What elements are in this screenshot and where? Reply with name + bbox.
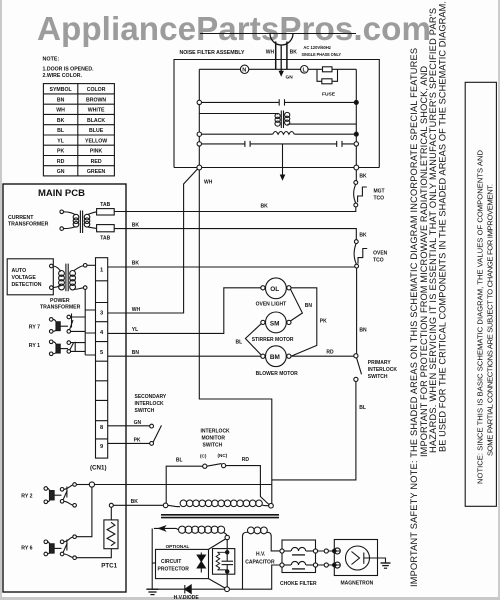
node HV primary right [269, 503, 274, 508]
HV transformer secondary winding [154, 526, 227, 535]
svg-text:GN: GN [286, 75, 294, 81]
power transformer label [40, 298, 81, 311]
connector pin numbers [100, 268, 104, 451]
svg-text:RY 6: RY 6 [21, 546, 32, 552]
label HV CAPACITOR [245, 552, 275, 566]
svg-text:CIRCUIT: CIRCUIT [161, 559, 181, 565]
note text [43, 57, 95, 80]
node junction RY2 top [89, 482, 94, 487]
svg-text:WH: WH [132, 307, 141, 313]
auto voltage detection block [7, 259, 53, 295]
wire OL to SM bend BN [290, 289, 302, 321]
ground left [146, 589, 158, 594]
svg-text:TAB: TAB [100, 202, 110, 208]
wire TVS top link [209, 539, 226, 549]
wire magnetron anode to ground [364, 558, 386, 563]
svg-text:INTERLOCK: INTERLOCK [135, 401, 165, 407]
ground stub below filter caps [280, 144, 286, 181]
svg-text:STIRRER MOTOR: STIRRER MOTOR [252, 337, 294, 343]
terminal row3 left [197, 132, 201, 136]
wire BL interlock down [272, 382, 356, 480]
wire bottom HV rail [152, 565, 280, 589]
terminal L [301, 66, 309, 74]
svg-text:MAGNETRON: MAGNETRON [341, 581, 374, 587]
wire choke to magnetron bottom [318, 564, 335, 566]
switch primary interlock [354, 354, 362, 382]
choke filter terminals left [280, 549, 284, 553]
HV transformer core [161, 515, 279, 518]
svg-text:AppliancePartsPros.com: AppliancePartsPros.com [37, 11, 431, 48]
label OVEN TCO [373, 251, 388, 264]
svg-text:RD: RD [326, 350, 334, 356]
wire RY2 wire1 out [95, 484, 272, 486]
svg-text:PTC1: PTC1 [101, 563, 117, 570]
wire noise filter right bus [355, 69, 357, 165]
svg-text:NOTE:: NOTE: [43, 57, 60, 63]
svg-text:RED: RED [91, 159, 102, 165]
svg-text:H.V.DIODE: H.V.DIODE [174, 595, 200, 600]
ground magnetron [381, 563, 391, 568]
thermal cutout OVEN TCO [354, 240, 367, 268]
wire junction down to RY6 [76, 487, 92, 537]
resistor PTC1 [104, 520, 118, 549]
svg-text:WH: WH [266, 50, 275, 56]
svg-text:NOTICE: SINCE THIS IS BASIC SC: NOTICE: SINCE THIS IS BASIC SCHEMATIC DI… [476, 149, 485, 484]
important safety note vertical text [409, 1, 448, 587]
TAB terminal upper [97, 209, 115, 215]
svg-text:SINGLE PHASE ONLY: SINGLE PHASE ONLY [302, 52, 342, 58]
svg-text:2.WIRE COLOR.: 2.WIRE COLOR. [43, 73, 83, 79]
svg-text:INTERLOCK: INTERLOCK [368, 367, 398, 373]
svg-text:BK: BK [261, 204, 269, 210]
node junction BL BK [163, 503, 168, 508]
wire pin4 YL to oven light [108, 288, 261, 334]
svg-text:MONITOR: MONITOR [202, 436, 226, 442]
svg-text:HAZARDS. WHEN SERVICING IT IS: HAZARDS. WHEN SERVICING IT IS ESSENTIAL … [428, 8, 438, 453]
wire pin1 to power transformer [87, 264, 96, 266]
svg-text:OPTIONAL: OPTIONAL [166, 544, 190, 549]
svg-text:WHITE: WHITE [88, 108, 105, 114]
svg-text:BL: BL [236, 340, 243, 346]
wire pin1 BK to OVEN TCO bottom [108, 266, 355, 268]
power plug [270, 34, 293, 72]
svg-text:RD: RD [57, 159, 65, 165]
svg-text:NOISE FILTER ASSEMBLY: NOISE FILTER ASSEMBLY [180, 50, 245, 56]
chassis top line [200, 33, 356, 35]
svg-text:PROTECTOR: PROTECTOR [158, 567, 190, 573]
svg-text:OL: OL [270, 286, 279, 293]
svg-text:3: 3 [100, 311, 104, 317]
wire RY2 top to junction [76, 484, 90, 486]
svg-text:9: 9 [100, 444, 104, 450]
svg-text:BN: BN [57, 97, 65, 103]
svg-text:BM: BM [270, 354, 280, 361]
terminal WH out [197, 165, 202, 170]
wire power transformer bus [85, 289, 95, 355]
svg-text:(CN1): (CN1) [90, 465, 107, 472]
svg-text:GN: GN [57, 169, 65, 175]
wire BK RY2 wire2 out [113, 504, 163, 506]
ground wire GN arrow [279, 71, 294, 81]
notice text [476, 149, 495, 484]
terminal BK out [354, 165, 359, 170]
wire pin9 PK [108, 442, 150, 444]
svg-text:PK: PK [134, 438, 141, 444]
svg-text:SWITCH: SWITCH [135, 408, 155, 414]
svg-text:SWITCH: SWITCH [203, 443, 223, 449]
connector circle bottom [324, 563, 328, 567]
svg-text:IMPORTANT SAFETY NOTE: THE SHA: IMPORTANT SAFETY NOTE: THE SHADED AREAS … [409, 48, 419, 587]
wire circuit protector to ground bus [152, 562, 155, 564]
noise filter assembly box [174, 60, 379, 168]
svg-text:BLUE: BLUE [89, 128, 104, 134]
svg-text:TRANSFORMER: TRANSFORMER [40, 305, 81, 311]
svg-text:TCO: TCO [374, 196, 385, 202]
magnetron filament terminals [333, 549, 337, 553]
svg-text:PK: PK [320, 319, 327, 325]
magnetron tube [346, 546, 370, 570]
HV capacitor box [213, 540, 235, 587]
wire color table [43, 84, 114, 176]
svg-text:CAPACITOR: CAPACITOR [245, 560, 275, 566]
svg-text:BK: BK [131, 499, 139, 505]
noise filter bottom edge [174, 167, 379, 169]
svg-text:BN: BN [305, 303, 313, 309]
connector circle top [324, 549, 328, 553]
svg-text:RD: RD [242, 457, 250, 463]
switch interlock monitor [200, 453, 228, 468]
svg-text:SM: SM [270, 320, 280, 327]
svg-text:FUSE: FUSE [322, 92, 336, 98]
wire pin5 BN to blower motor [108, 355, 261, 357]
label INTERLOCK MONITOR SWITCH [201, 429, 231, 449]
svg-text:RY 7: RY 7 [29, 325, 40, 331]
terminal row1 left [197, 100, 201, 104]
HV transformer primary winding [168, 500, 269, 507]
wire choke to magnetron top [318, 550, 335, 552]
power transformer [50, 264, 87, 292]
svg-text:BK: BK [132, 223, 140, 229]
TAB terminal lower [97, 225, 115, 232]
choke filter terminals right [313, 549, 317, 553]
capacitor X1 row1 [202, 99, 355, 105]
wire pin8 GN [108, 425, 150, 427]
svg-text:CHOKE FILTER: CHOKE FILTER [280, 581, 317, 587]
notice box [465, 82, 496, 506]
svg-text:8: 8 [100, 425, 104, 431]
wire TAB2 to OVEN TCO [114, 229, 356, 240]
terminal row4 right [354, 142, 358, 146]
svg-text:BK: BK [57, 118, 65, 124]
svg-text:BE USED FOR THE CRITICAL COMPO: BE USED FOR THE CRITICAL COMPONENTS IN T… [438, 1, 448, 452]
svg-text:PRIMARY: PRIMARY [368, 360, 392, 366]
svg-text:N: N [242, 68, 246, 74]
svg-text:BL: BL [359, 405, 366, 411]
choke filter box [282, 540, 316, 573]
wire monitor NC to HV node [226, 466, 269, 505]
label AC 120V/60Hz [302, 45, 342, 58]
svg-text:YL: YL [57, 138, 64, 144]
wire TVS bottom link [209, 579, 226, 588]
svg-text:BN: BN [359, 328, 367, 334]
svg-text:5: 5 [100, 350, 104, 356]
svg-text:TRANSFORMER: TRANSFORMER [8, 222, 49, 228]
svg-text:BL: BL [176, 458, 183, 464]
svg-text:MGT: MGT [374, 189, 385, 195]
svg-text:L: L [303, 68, 307, 74]
diode HV [185, 585, 191, 593]
TVS diode pair [197, 553, 205, 573]
svg-text:BK: BK [132, 261, 140, 267]
svg-text:BLOWER MOTOR: BLOWER MOTOR [256, 371, 299, 377]
svg-text:OVEN LIGHT: OVEN LIGHT [256, 302, 287, 308]
magnetron box [334, 540, 377, 576]
current transformer [60, 210, 97, 233]
node bottom junction [225, 587, 230, 592]
svg-text:BL: BL [57, 128, 65, 134]
svg-text:BK: BK [290, 50, 298, 56]
circuit protector box [156, 549, 209, 578]
wire noise filter left bus [198, 69, 200, 165]
node row3 right [354, 132, 358, 136]
wire RY6 bottom to PTC1 [76, 549, 111, 558]
capacitor row4 pair [202, 141, 355, 147]
wire SM to BM bend BL [245, 324, 261, 355]
svg-text:COLOR: COLOR [87, 87, 106, 93]
svg-text:(NC): (NC) [218, 453, 228, 458]
current transformer label [8, 215, 49, 228]
svg-text:SYMBOL: SYMBOL [49, 87, 72, 93]
label PRIMARY INTERLOCK SWITCH [368, 360, 398, 380]
switch secondary interlock [150, 424, 162, 445]
wire OL right to PK bus [291, 288, 317, 356]
svg-text:GN: GN [134, 420, 142, 426]
svg-text:POWER: POWER [50, 298, 70, 304]
label SECONDARY INTERLOCK SWITCH [135, 394, 167, 414]
label MGT TCO [374, 189, 385, 202]
svg-text:YELLOW: YELLOW [85, 138, 107, 144]
terminal HV secondary to capacitor [225, 535, 229, 539]
svg-text:AC 120V/60Hz: AC 120V/60Hz [303, 45, 331, 51]
common mode choke L1 [199, 111, 356, 129]
svg-text:YL: YL [132, 327, 138, 333]
svg-text:H.V.: H.V. [256, 552, 266, 558]
HV transformer filament winding [243, 527, 281, 589]
inductor row3 [202, 132, 355, 135]
svg-text:AUTO: AUTO [12, 268, 27, 274]
svg-text:SWITCH: SWITCH [368, 374, 388, 380]
svg-text:4: 4 [100, 330, 104, 336]
svg-text:PINK: PINK [90, 149, 103, 155]
svg-text:1.DOOR IS OPENED.: 1.DOOR IS OPENED. [43, 67, 95, 73]
wire BK filter to MGT TCO [355, 170, 357, 181]
choke coil bottom [284, 561, 313, 569]
svg-text:TCO: TCO [373, 258, 384, 264]
svg-text:RY 1: RY 1 [29, 343, 40, 349]
svg-text:INTERLOCK: INTERLOCK [201, 429, 231, 435]
svg-text:GREEN: GREEN [87, 169, 106, 175]
magnetron filament [334, 548, 340, 568]
motor BM blower motor [261, 346, 291, 367]
node row1 right [354, 100, 358, 104]
svg-text:BLACK: BLACK [87, 118, 105, 124]
svg-text:WH: WH [56, 108, 65, 114]
node junction PTC1 top [109, 503, 113, 507]
svg-text:TAB: TAB [100, 236, 110, 242]
wire WH bus down [199, 170, 271, 503]
wire monitor C to BK node [166, 466, 203, 503]
fuse FUSE [317, 67, 356, 84]
svg-text:WH: WH [204, 180, 213, 186]
svg-text:OVEN: OVEN [373, 251, 388, 257]
svg-text:(C): (C) [200, 454, 207, 459]
svg-text:PK: PK [57, 149, 64, 155]
svg-text:BROWN: BROWN [86, 97, 106, 103]
svg-text:1: 1 [100, 268, 104, 274]
wire right bus BN down to interlock [356, 268, 358, 354]
connector CN1 strip [96, 258, 108, 458]
svg-text:SECONDARY: SECONDARY [135, 394, 167, 400]
main pcb outline [3, 184, 126, 592]
wire PTC1 top to BK wire [110, 507, 112, 520]
svg-text:BN: BN [132, 350, 140, 356]
svg-text:CURRENT: CURRENT [8, 215, 34, 221]
motor SM stirrer motor [261, 312, 291, 333]
svg-text:SOME PARTIAL CONNECTIONS ARE S: SOME PARTIAL CONNECTIONS ARE SUBJECT TO … [485, 184, 494, 456]
svg-text:MAIN PCB: MAIN PCB [38, 188, 85, 199]
wire WH branch to pin3 [108, 169, 198, 313]
wire N L line [199, 68, 317, 70]
terminal row4 left [197, 142, 201, 146]
svg-text:BK: BK [359, 233, 367, 239]
motor OL oven light [261, 278, 291, 299]
wire left ground bus [151, 528, 153, 589]
svg-text:RY 2: RY 2 [21, 494, 32, 500]
thermal cutout MGT TCO [354, 181, 367, 207]
choke coil top [284, 547, 313, 555]
svg-text:DETECTION: DETECTION [12, 282, 42, 288]
svg-text:VOLTAGE: VOLTAGE [12, 275, 37, 281]
svg-text:BK: BK [359, 174, 367, 180]
wire BM to primary interlock RD [291, 355, 354, 357]
terminal N [240, 65, 248, 73]
wire MGT TCO to TAB1 [114, 207, 356, 212]
